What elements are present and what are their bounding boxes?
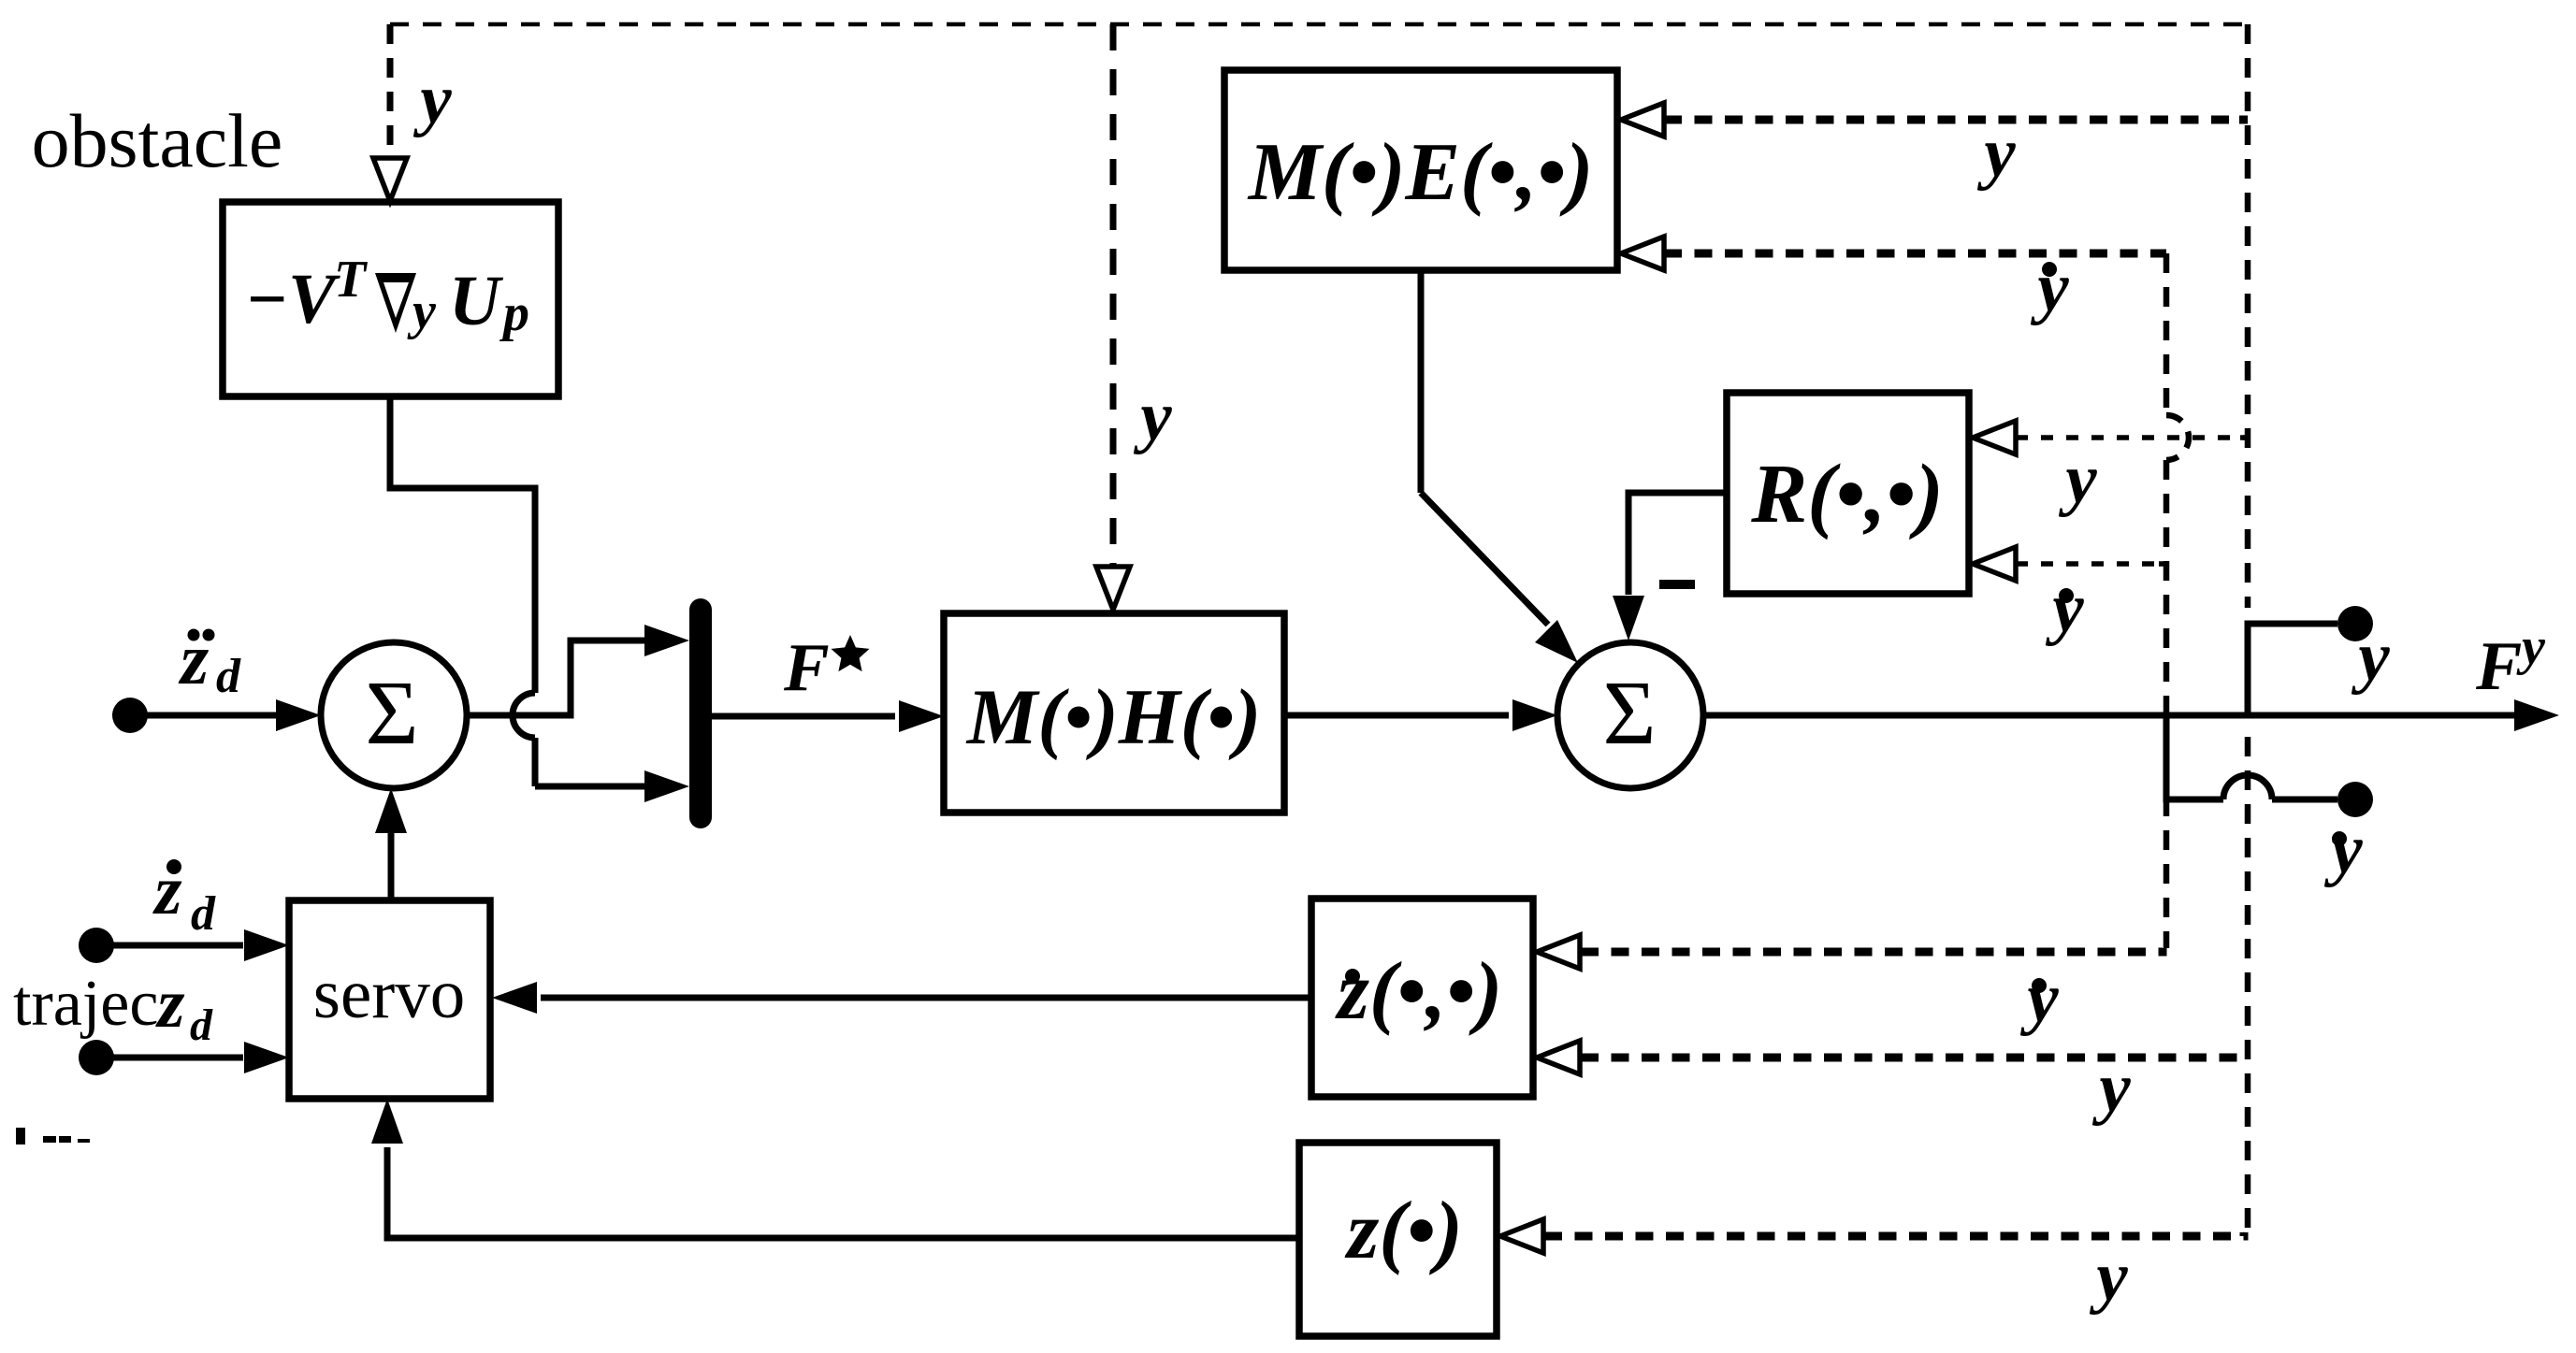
zdot_d label [152,852,216,941]
hollow arrowhead into R upper [1973,421,2016,454]
block zdot(.,.) [1311,899,1533,1097]
svg-text:obstacle: obstacle [32,98,283,183]
wire: sum1 output to upper branch of merge bar [467,641,645,715]
wire: dashed ydot to R lower input [2159,561,2166,567]
wire: dashed y to M(.)E upper input [2239,116,2248,124]
wire: sum2 output main line F^y [1703,712,2514,719]
nabla glyph [375,273,416,333]
svg-text:z: z [154,965,184,1043]
block M(.)E(.,.) [1224,70,1617,270]
hollow arrowhead into R lower [1973,547,2016,581]
hollow arrowhead into obstacle box top [373,158,407,201]
svg-text:d: d [190,1000,213,1050]
terminal dot ydot [2337,782,2373,817]
wire: z box output to servo bottom input [387,1147,1299,1238]
block z(.) [1299,1143,1497,1336]
block: obstacle potential -V^T grad_y U_p [223,202,558,396]
wire: merge bar to M(.)H [712,713,895,720]
hollow arrowhead into M(.)E upper [1621,103,1664,137]
merge bar [689,610,712,817]
terminal dot y [2337,606,2373,641]
wire: ydot tap down from main line [2166,715,2223,799]
block M(.)H(.) [944,613,1284,813]
svg-text:Σ: Σ [365,663,418,764]
wire: R output to sum2 (minus) [1628,493,1727,595]
wire: z_d into servo [96,1055,243,1061]
wire: M(.)E output down and diagonal into sum2 [1418,270,1425,493]
wire: zdd_d into sum1 [130,712,276,719]
summing junction sum2 [1557,642,1703,788]
wire: dashed ydot to M(.)E lower input [2158,250,2166,258]
svg-text:servo: servo [313,956,465,1033]
input zdd_d source dot [112,698,148,733]
wire: dashed y to z box input [1544,1232,2244,1236]
svg-text:F: F [2475,628,2522,705]
svg-text:trajec: trajec [13,968,158,1040]
wire: sum1 bottom input from servo [388,833,395,900]
wire: zdot box output to servo right input [541,995,1311,1001]
label F-star [783,629,870,705]
hollow arrowhead into M(.)E lower [1621,237,1664,270]
label F^y [2475,618,2546,705]
svg-text:U: U [449,262,504,340]
wire: dashed y to R upper input [2240,435,2248,440]
wire: dashed vertical into obstacle box [387,24,394,156]
wire: dashed vertical x=2316 [2164,253,2170,415]
wire: obstacle box output down-right-down [390,396,535,693]
hollow arrowhead into z box [1500,1219,1543,1253]
wire: dashed ydot to zdot box upper input [1581,948,2163,952]
wire: y tap up from main line [2248,624,2337,715]
hop over dashed vertical [2223,775,2272,799]
wire: lower branch into merge bar [535,784,645,790]
input z_d source dot [79,1040,114,1075]
svg-text:M(•)E(•,•): M(•)E(•,•) [1247,127,1594,218]
wire: dashed vertical right x=2403 lower [2245,737,2251,1232]
hollow arrowhead into M(.)H top [1096,567,1130,610]
input zdot_d source dot [79,928,114,963]
hop over sum1 output [513,693,535,738]
svg-text:M(•)H(•): M(•)H(•) [965,673,1261,761]
z_d label [154,965,213,1050]
block R(.,.) [1727,393,1969,594]
minus sign [1659,580,1695,589]
hollow arrowhead into zdot box upper [1537,935,1580,969]
svg-text:d: d [216,650,241,703]
wire: dashed y to zdot box lower input [1581,1054,2248,1062]
svg-text:Σ: Σ [1602,663,1656,764]
svg-text:−V: −V [245,260,340,338]
svg-text:F: F [783,629,830,705]
svg-text:T: T [334,251,369,309]
wire: M(.)H output to sum2 [1284,712,1509,719]
clipped text fragments bottom-left [16,1128,90,1144]
svg-text:d: d [191,887,216,941]
wire: top thin dashed y-line horizontal [390,22,2248,27]
hop of dashed x=2316 over y-line [2166,415,2189,460]
zdd_d label [178,618,241,703]
wire: dashed vertical into M(.)H(.) top [1110,24,1117,565]
svg-text:p: p [499,284,529,342]
svg-text:z(•): z(•) [1344,1186,1463,1276]
svg-text:z(•,•): z(•,•) [1335,946,1502,1037]
summing junction sum1 [321,642,467,788]
wire: dashed vertical right x=2403 upper [2245,24,2251,608]
svg-text:R(•,•): R(•,•) [1750,448,1944,540]
hollow arrowhead into zdot box lower [1537,1041,1580,1074]
block servo [289,900,490,1099]
wire: zdot_d into servo [96,943,243,949]
